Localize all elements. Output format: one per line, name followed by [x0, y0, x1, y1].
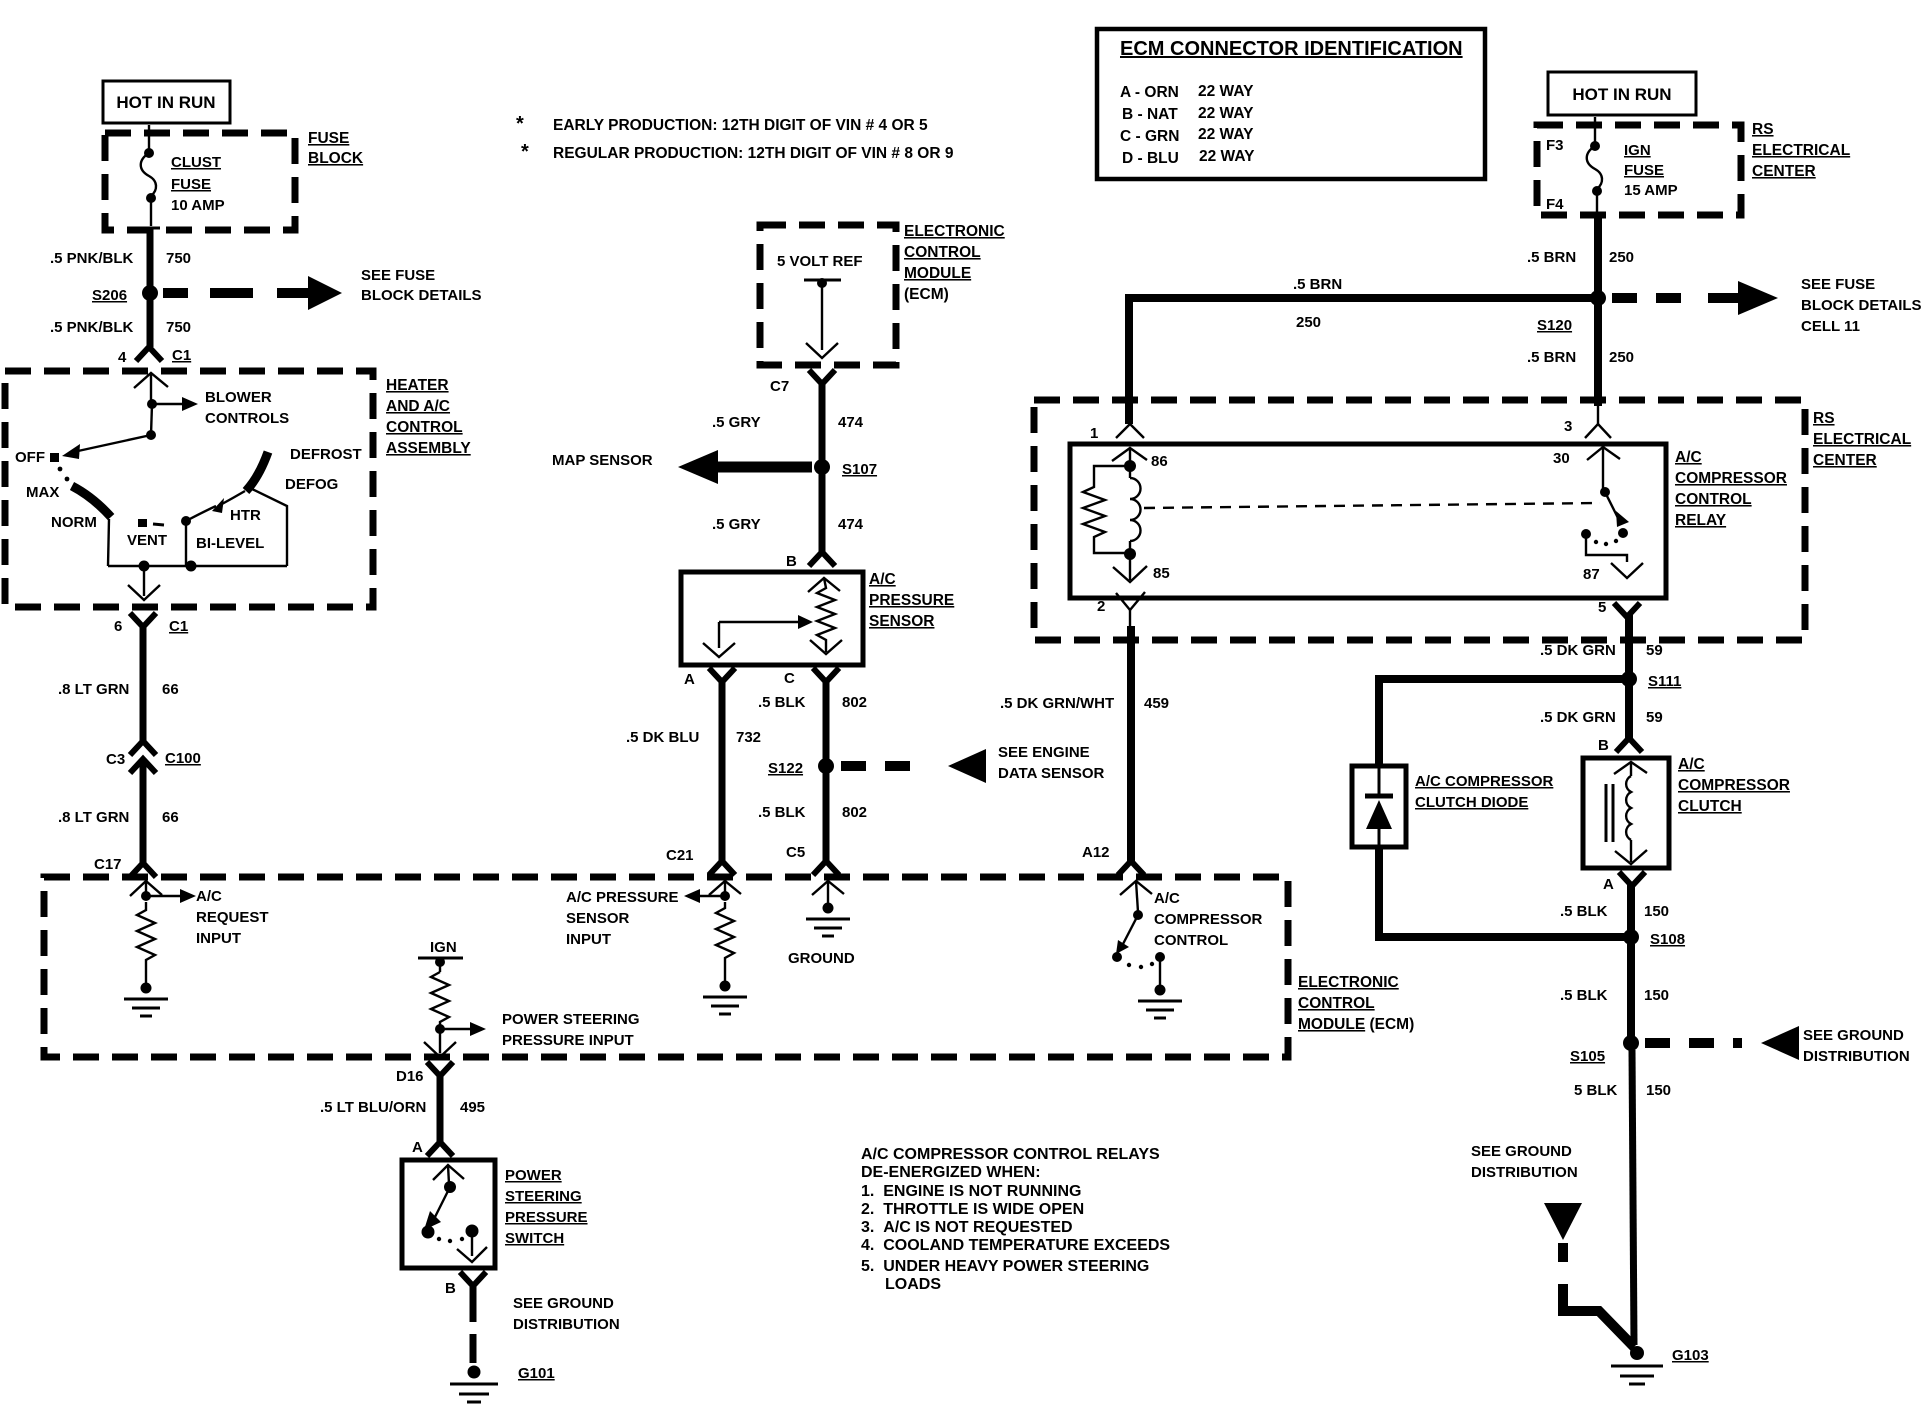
svg-text:B: B	[1598, 737, 1609, 754]
svg-text:DE-ENERGIZED WHEN:: DE-ENERGIZED WHEN:	[861, 1164, 1041, 1181]
svg-text:SEE GROUND: SEE GROUND	[513, 1295, 614, 1312]
wire .5 GRY 474 (lower)	[712, 467, 864, 552]
node HOT IN RUN (left)	[103, 81, 230, 123]
PS switch contacts	[422, 1165, 488, 1262]
wire .5 BRN 250 (upper)	[1527, 215, 1634, 291]
connector A (pressure sensor)	[684, 668, 735, 861]
svg-text:INPUT: INPUT	[196, 930, 241, 947]
svg-text:22 WAY: 22 WAY	[1198, 83, 1254, 100]
svg-text:CLUTCH DIODE: CLUTCH DIODE	[1415, 794, 1528, 811]
node S120	[1537, 290, 1606, 334]
svg-text:A - ORN: A - ORN	[1120, 84, 1179, 101]
ECM connector identification table	[1097, 29, 1485, 179]
svg-text:MAX: MAX	[26, 484, 59, 501]
svg-text:SEE GROUND: SEE GROUND	[1803, 1027, 1904, 1044]
svg-text:66: 66	[162, 681, 179, 698]
node HOT IN RUN (right)	[1548, 72, 1696, 115]
svg-text:.5 BLK: .5 BLK	[758, 804, 806, 821]
svg-text:1: 1	[1090, 425, 1098, 442]
svg-text:CONTROLS: CONTROLS	[205, 410, 289, 427]
svg-text:POWER STEERING: POWER STEERING	[502, 1011, 640, 1028]
A/C compressor control switch (ECM)	[1112, 890, 1263, 988]
svg-text:COMPRESSOR: COMPRESSOR	[1154, 911, 1263, 928]
connector C (pressure sensor)	[784, 668, 839, 762]
svg-text:.5 PNK/BLK: .5 PNK/BLK	[50, 319, 134, 336]
node S105	[1570, 1035, 1639, 1065]
svg-text:802: 802	[842, 694, 867, 711]
relay pin 1 connector	[1090, 424, 1168, 470]
wire .5 DK GRN 59 (upper)	[1540, 642, 1663, 659]
svg-text:REGULAR PRODUCTION: 12TH DIGIT: REGULAR PRODUCTION: 12TH DIGIT OF VIN # …	[553, 145, 954, 162]
connector C21	[666, 847, 741, 896]
connector D16	[396, 1062, 453, 1142]
wire .5 BLK 150 (lower)	[1560, 944, 1669, 1038]
svg-text:A/C: A/C	[196, 888, 222, 905]
svg-text:.8 LT GRN: .8 LT GRN	[58, 809, 129, 826]
heater and A/C control assembly dashed box	[5, 371, 471, 607]
svg-text:(ECM): (ECM)	[904, 286, 949, 303]
svg-text:S111: S111	[1648, 673, 1681, 690]
wire .5 BLK 802 (lower)	[758, 766, 867, 861]
wire .5 PNK/BLK 750 (upper)	[50, 228, 191, 288]
svg-text:.5 DK GRN: .5 DK GRN	[1540, 642, 1616, 659]
ground (A/C request)	[124, 983, 168, 1017]
note regular production	[521, 141, 954, 163]
horizontal wire .5 BRN 250 to relay	[1129, 276, 1598, 424]
svg-text:474: 474	[838, 516, 864, 533]
dashed wire + arrow SEE ENGINE DATA SENSOR	[841, 744, 1105, 783]
svg-text:150: 150	[1644, 903, 1669, 920]
svg-text:COMPRESSOR: COMPRESSOR	[1675, 470, 1787, 487]
svg-text:.5 BLK: .5 BLK	[1560, 903, 1608, 920]
relay coil	[1124, 460, 1141, 560]
svg-text:.5 DK GRN/WHT: .5 DK GRN/WHT	[1000, 695, 1114, 712]
svg-text:86: 86	[1151, 453, 1168, 470]
svg-text:S206: S206	[92, 287, 127, 304]
svg-text:1. ENGINE IS NOT RUNNING: 1. ENGINE IS NOT RUNNING	[861, 1183, 1081, 1200]
svg-text:C: C	[784, 670, 795, 687]
wire .5 DK GRN 59 (lower)	[1540, 679, 1663, 738]
A/C request input tap	[141, 888, 269, 947]
svg-text:C21: C21	[666, 847, 694, 864]
svg-text:CENTER: CENTER	[1813, 452, 1877, 469]
connector A12	[1082, 844, 1152, 912]
connector A (PS switch)	[412, 1139, 453, 1156]
svg-text:5. UNDER HEAVY POWER STEERING: 5. UNDER HEAVY POWER STEERING	[861, 1258, 1149, 1275]
svg-text:FUSE: FUSE	[171, 176, 211, 193]
svg-text:REQUEST: REQUEST	[196, 909, 269, 926]
svg-text:A: A	[1603, 876, 1614, 893]
exit arrow to pin 6	[128, 566, 160, 600]
svg-text:750: 750	[166, 250, 191, 267]
wire NORM position down	[108, 519, 109, 566]
RS electrical center dashed box (relay)	[1034, 400, 1911, 640]
wire .5 PNK/BLK 750 (lower)	[50, 299, 191, 347]
svg-text:MAP SENSOR: MAP SENSOR	[552, 452, 653, 469]
svg-text:ELECTRICAL: ELECTRICAL	[1813, 431, 1911, 448]
svg-text:.5 GRY: .5 GRY	[712, 516, 761, 533]
svg-text:SENSOR: SENSOR	[869, 613, 934, 630]
svg-text:.5 DK GRN: .5 DK GRN	[1540, 709, 1616, 726]
svg-text:RS: RS	[1752, 121, 1774, 138]
svg-text:RS: RS	[1813, 410, 1835, 427]
ground G101	[450, 1365, 555, 1402]
resistor A/C request	[137, 902, 155, 988]
ECM dashed box (bottom)	[44, 877, 1414, 1057]
svg-text:F3: F3	[1546, 137, 1564, 154]
exit arrow to D16	[424, 1029, 456, 1057]
svg-text:COMPRESSOR: COMPRESSOR	[1678, 777, 1790, 794]
svg-text:CONTROL: CONTROL	[1154, 932, 1228, 949]
node S206	[92, 285, 158, 304]
svg-text:2. THROTTLE IS WIDE OPEN: 2. THROTTLE IS WIDE OPEN	[861, 1201, 1084, 1218]
switch position arc DEFOG-DEFROST	[246, 446, 362, 493]
svg-text:HOT IN RUN: HOT IN RUN	[116, 93, 215, 112]
svg-text:FUSE: FUSE	[308, 130, 349, 147]
svg-text:.5 BLK: .5 BLK	[758, 694, 806, 711]
svg-text:250: 250	[1609, 349, 1634, 366]
node S108	[1623, 929, 1685, 948]
svg-text:OFF: OFF	[15, 449, 45, 466]
svg-text:BLOWER: BLOWER	[205, 389, 272, 406]
fuse IGN FUSE 15 AMP	[1587, 117, 1678, 215]
connector B (clutch)	[1598, 737, 1642, 754]
svg-text:A: A	[412, 1139, 423, 1156]
relay actuation dashed link	[1144, 503, 1600, 508]
svg-text:6: 6	[114, 618, 122, 635]
fuse block dashed box	[105, 130, 364, 230]
svg-text:4. COOLAND TEMPERATURE EXCEED: 4. COOLAND TEMPERATURE EXCEEDS	[861, 1237, 1170, 1254]
svg-text:HOT IN RUN: HOT IN RUN	[1572, 85, 1671, 104]
svg-text:.5 BRN: .5 BRN	[1293, 276, 1342, 293]
svg-text:C5: C5	[786, 844, 805, 861]
svg-text:A/C COMPRESSOR: A/C COMPRESSOR	[1415, 773, 1554, 790]
svg-text:A/C COMPRESSOR CONTROL RELAYS: A/C COMPRESSOR CONTROL RELAYS	[861, 1146, 1160, 1163]
connector C1 pin 4	[118, 347, 191, 404]
connector A (clutch)	[1603, 872, 1645, 930]
note early production	[516, 113, 928, 135]
connector C3 / C100	[106, 741, 201, 863]
svg-text:INPUT: INPUT	[566, 931, 611, 948]
svg-text:ELECTRONIC: ELECTRONIC	[904, 223, 1005, 240]
node S122	[768, 758, 834, 777]
svg-text:A12: A12	[1082, 844, 1110, 861]
A/C compressor control relay box	[1070, 444, 1787, 598]
svg-text:BI-LEVEL: BI-LEVEL	[196, 535, 264, 552]
svg-text:10 AMP: 10 AMP	[171, 197, 225, 214]
wire .5 BLK 802 (upper)	[758, 694, 867, 711]
relay coil shunt resistor	[1083, 466, 1130, 553]
svg-text:A/C: A/C	[1675, 449, 1702, 466]
wire .8 LT GRN 66 (lower)	[58, 809, 179, 826]
note A/C compressor relays de-energized	[861, 1146, 1170, 1293]
wire clutch diode to S108	[1379, 847, 1624, 937]
svg-text:A/C PRESSURE: A/C PRESSURE	[566, 889, 679, 906]
svg-text:C1: C1	[169, 618, 188, 635]
svg-text:C3: C3	[106, 751, 125, 768]
svg-text:5: 5	[1598, 599, 1606, 616]
A/C compressor clutch diode box	[1352, 766, 1554, 847]
diode symbol	[1365, 768, 1393, 845]
svg-text:A/C: A/C	[1154, 890, 1180, 907]
svg-text:.5 GRY: .5 GRY	[712, 414, 761, 431]
svg-text:59: 59	[1646, 709, 1663, 726]
A/C compressor clutch box	[1583, 756, 1790, 868]
svg-text:BLOCK DETAILS: BLOCK DETAILS	[1801, 297, 1922, 314]
svg-text:.5 DK BLU: .5 DK BLU	[626, 729, 699, 746]
svg-text:ELECTRONIC: ELECTRONIC	[1298, 974, 1399, 991]
svg-text:DISTRIBUTION: DISTRIBUTION	[513, 1316, 620, 1333]
wire DEFOG position down	[252, 489, 287, 566]
svg-text:MODULE (ECM): MODULE (ECM)	[1298, 1016, 1414, 1033]
svg-text:A/C: A/C	[869, 571, 896, 588]
svg-text:POWER: POWER	[505, 1167, 562, 1184]
fuse CLUST FUSE 10 AMP	[141, 125, 225, 226]
wire 5 BLK 150 to G103	[1574, 1050, 1671, 1345]
clutch coil	[1606, 762, 1647, 864]
svg-text:AND A/C: AND A/C	[386, 398, 450, 415]
svg-text:22 WAY: 22 WAY	[1198, 105, 1254, 122]
svg-text:HTR: HTR	[230, 507, 261, 524]
svg-text:DEFOG: DEFOG	[285, 476, 338, 493]
svg-text:G101: G101	[518, 1365, 555, 1382]
svg-text:BLOCK DETAILS: BLOCK DETAILS	[361, 287, 482, 304]
svg-text:LOADS: LOADS	[885, 1276, 941, 1293]
svg-text:B: B	[445, 1280, 456, 1297]
VENT contact	[127, 516, 191, 566]
svg-text:15 AMP: 15 AMP	[1624, 182, 1678, 199]
svg-text:ELECTRICAL: ELECTRICAL	[1752, 142, 1850, 159]
svg-text:495: 495	[460, 1099, 485, 1116]
svg-text:250: 250	[1296, 314, 1321, 331]
A/C pressure sensor input tap	[566, 889, 730, 948]
connector C1 pin 6	[114, 613, 188, 690]
bottom bus of switch	[108, 561, 287, 572]
svg-text:HEATER: HEATER	[386, 377, 449, 394]
dashed wire + arrow SEE GROUND DISTRIBUTION (right)	[1645, 1026, 1910, 1065]
svg-text:DEFROST: DEFROST	[290, 446, 362, 463]
svg-text:.5 LT BLU/ORN: .5 LT BLU/ORN	[320, 1099, 426, 1116]
svg-text:474: 474	[838, 414, 864, 431]
svg-text:RELAY: RELAY	[1675, 512, 1727, 529]
dashed wire + arrow SEE FUSE BLOCK DETAILS CELL 11	[1612, 276, 1922, 335]
svg-text:CENTER: CENTER	[1752, 163, 1816, 180]
svg-text:B: B	[786, 553, 797, 570]
wire S111 to clutch diode	[1379, 679, 1622, 766]
blower controls tap	[147, 389, 289, 427]
svg-text:ASSEMBLY: ASSEMBLY	[386, 440, 471, 457]
ground G103	[1611, 1346, 1709, 1384]
wire .5 GRY 474 (upper)	[712, 414, 864, 431]
svg-text:ECM CONNECTOR IDENTIFICATION: ECM CONNECTOR IDENTIFICATION	[1120, 38, 1463, 60]
switch position arc MAX-NORM	[26, 484, 111, 531]
relay switch	[1581, 487, 1643, 583]
wire .8 LT GRN 66 (upper)	[58, 681, 179, 741]
svg-text:CONTROL: CONTROL	[386, 419, 463, 436]
svg-text:B - NAT: B - NAT	[1122, 106, 1178, 123]
svg-text:A/C: A/C	[1678, 756, 1705, 773]
svg-text:.8 LT GRN: .8 LT GRN	[58, 681, 129, 698]
svg-text:S120: S120	[1537, 317, 1572, 334]
svg-text:750: 750	[166, 319, 191, 336]
svg-text:G103: G103	[1672, 1347, 1709, 1364]
svg-text:CLUTCH: CLUTCH	[1678, 798, 1742, 815]
svg-text:CELL 11: CELL 11	[1801, 318, 1860, 335]
ground (C21 input)	[703, 981, 747, 1015]
svg-text:22 WAY: 22 WAY	[1199, 148, 1255, 165]
svg-text:C17: C17	[94, 856, 122, 873]
svg-text:S105: S105	[1570, 1048, 1605, 1065]
wire .5 BLK 150 (upper)	[1560, 903, 1669, 920]
svg-text:FUSE: FUSE	[1624, 162, 1664, 179]
svg-text:PRESSURE: PRESSURE	[505, 1209, 588, 1226]
IGN pull-up node	[418, 939, 463, 972]
connector C17	[94, 856, 162, 896]
svg-text:2: 2	[1097, 598, 1105, 615]
svg-text:F4: F4	[1546, 196, 1564, 213]
power steering pressure input tap	[435, 1011, 640, 1049]
ground (C5)	[788, 903, 855, 968]
svg-text:5 VOLT REF: 5 VOLT REF	[777, 253, 863, 270]
svg-text:BLOCK: BLOCK	[308, 150, 364, 167]
svg-text:*: *	[516, 113, 524, 135]
svg-text:30: 30	[1553, 450, 1570, 467]
svg-text:CONTROL: CONTROL	[1675, 491, 1752, 508]
svg-text:459: 459	[1144, 695, 1169, 712]
svg-text:C - GRN: C - GRN	[1120, 128, 1179, 145]
svg-text:150: 150	[1644, 987, 1669, 1004]
svg-text:PRESSURE: PRESSURE	[869, 592, 954, 609]
svg-text:4: 4	[118, 349, 127, 366]
svg-text:85: 85	[1153, 565, 1170, 582]
svg-text:NORM: NORM	[51, 514, 97, 531]
svg-text:PRESSURE INPUT: PRESSURE INPUT	[502, 1032, 634, 1049]
connector C7	[770, 370, 835, 460]
svg-text:S108: S108	[1650, 931, 1685, 948]
svg-text:250: 250	[1609, 249, 1634, 266]
wire .5 DK GRN/WHT 459	[1000, 626, 1169, 861]
pot wiper arrow	[703, 615, 813, 657]
svg-text:IGN: IGN	[1624, 142, 1651, 159]
svg-text:IGN: IGN	[430, 939, 457, 956]
A/C pressure sensor box	[681, 571, 954, 665]
svg-text:DATA SENSOR: DATA SENSOR	[998, 765, 1105, 782]
svg-text:SEE ENGINE: SEE ENGINE	[998, 744, 1090, 761]
ground (A12)	[1138, 985, 1182, 1019]
5 volt ref internal lead	[804, 278, 841, 358]
ground distribution arrow down	[1544, 1203, 1634, 1347]
relay pin 5 connector	[1598, 599, 1640, 672]
svg-text:STEERING: STEERING	[505, 1188, 582, 1205]
connector C5	[786, 844, 844, 908]
dashed wire + arrow SEE FUSE BLOCK DETAILS	[163, 267, 482, 310]
connector B (PS switch)	[445, 1272, 486, 1322]
svg-text:59: 59	[1646, 642, 1663, 659]
svg-text:CLUST: CLUST	[171, 154, 221, 171]
dotted segment near VENT	[138, 519, 164, 527]
svg-text:802: 802	[842, 804, 867, 821]
thin arc VENT to HTR with arrowhead	[186, 491, 264, 552]
connector B (pressure sensor)	[786, 552, 840, 592]
potentiometer (pressure sensor)	[810, 578, 842, 654]
node S107	[814, 459, 877, 478]
svg-text:SENSOR: SENSOR	[566, 910, 630, 927]
svg-text:.5 BLK: .5 BLK	[1560, 987, 1608, 1004]
svg-text:EARLY PRODUCTION: 12TH DIGIT O: EARLY PRODUCTION: 12TH DIGIT OF VIN # 4 …	[553, 117, 928, 134]
svg-text:C1: C1	[172, 347, 191, 364]
svg-text:D - BLU: D - BLU	[1122, 150, 1179, 167]
svg-text:150: 150	[1646, 1082, 1671, 1099]
svg-text:D16: D16	[396, 1068, 424, 1085]
svg-text:.5 BRN: .5 BRN	[1527, 349, 1576, 366]
svg-text:.5 PNK/BLK: .5 PNK/BLK	[50, 250, 134, 267]
svg-text:.5 BRN: .5 BRN	[1527, 249, 1576, 266]
see ground distribution (G101)	[473, 1295, 620, 1363]
svg-text:S107: S107	[842, 461, 877, 478]
node S111	[1621, 671, 1681, 690]
svg-text:732: 732	[736, 729, 761, 746]
resistor IGN	[431, 972, 449, 1029]
svg-text:SWITCH: SWITCH	[505, 1230, 564, 1247]
svg-text:C100: C100	[165, 750, 201, 767]
svg-text:3: 3	[1564, 418, 1572, 435]
svg-text:*: *	[521, 141, 529, 163]
svg-text:SEE FUSE: SEE FUSE	[361, 267, 435, 284]
rotary switch wiper to OFF	[15, 404, 156, 466]
5 volt ref dashed box (ECM)	[760, 223, 1005, 365]
resistor C21 input	[716, 902, 734, 986]
dotted arc OFF to MAX	[58, 467, 70, 482]
relay pin 2 / 85	[1097, 554, 1170, 628]
svg-text:MODULE: MODULE	[904, 265, 971, 282]
svg-text:DISTRIBUTION: DISTRIBUTION	[1471, 1164, 1578, 1181]
svg-text:SEE GROUND: SEE GROUND	[1471, 1143, 1572, 1160]
svg-text:3. A/C IS NOT REQUESTED: 3. A/C IS NOT REQUESTED	[861, 1219, 1073, 1236]
svg-text:CONTROL: CONTROL	[904, 244, 981, 261]
wire .5 BRN 250 (lower)	[1527, 298, 1634, 406]
svg-text:A: A	[684, 671, 695, 688]
svg-text:S122: S122	[768, 760, 803, 777]
RS electrical center fuse dashed box	[1537, 121, 1850, 215]
svg-text:87: 87	[1583, 566, 1600, 583]
arrow to MAP sensor	[552, 450, 812, 484]
svg-text:5 BLK: 5 BLK	[1574, 1082, 1618, 1099]
svg-text:DISTRIBUTION: DISTRIBUTION	[1803, 1048, 1910, 1065]
svg-text:SEE FUSE: SEE FUSE	[1801, 276, 1875, 293]
relay pin 3 connector	[1553, 404, 1620, 490]
svg-text:GROUND: GROUND	[788, 950, 855, 967]
svg-text:CONTROL: CONTROL	[1298, 995, 1375, 1012]
wire .5 DK BLU 732	[626, 729, 761, 746]
power steering pressure switch box	[402, 1160, 588, 1268]
svg-text:VENT: VENT	[127, 532, 167, 549]
wire .5 LT BLU/ORN 495	[320, 1099, 485, 1116]
svg-text:66: 66	[162, 809, 179, 826]
svg-text:22 WAY: 22 WAY	[1198, 126, 1254, 143]
see ground distribution (mid)	[1471, 1143, 1578, 1181]
svg-text:C7: C7	[770, 378, 789, 395]
